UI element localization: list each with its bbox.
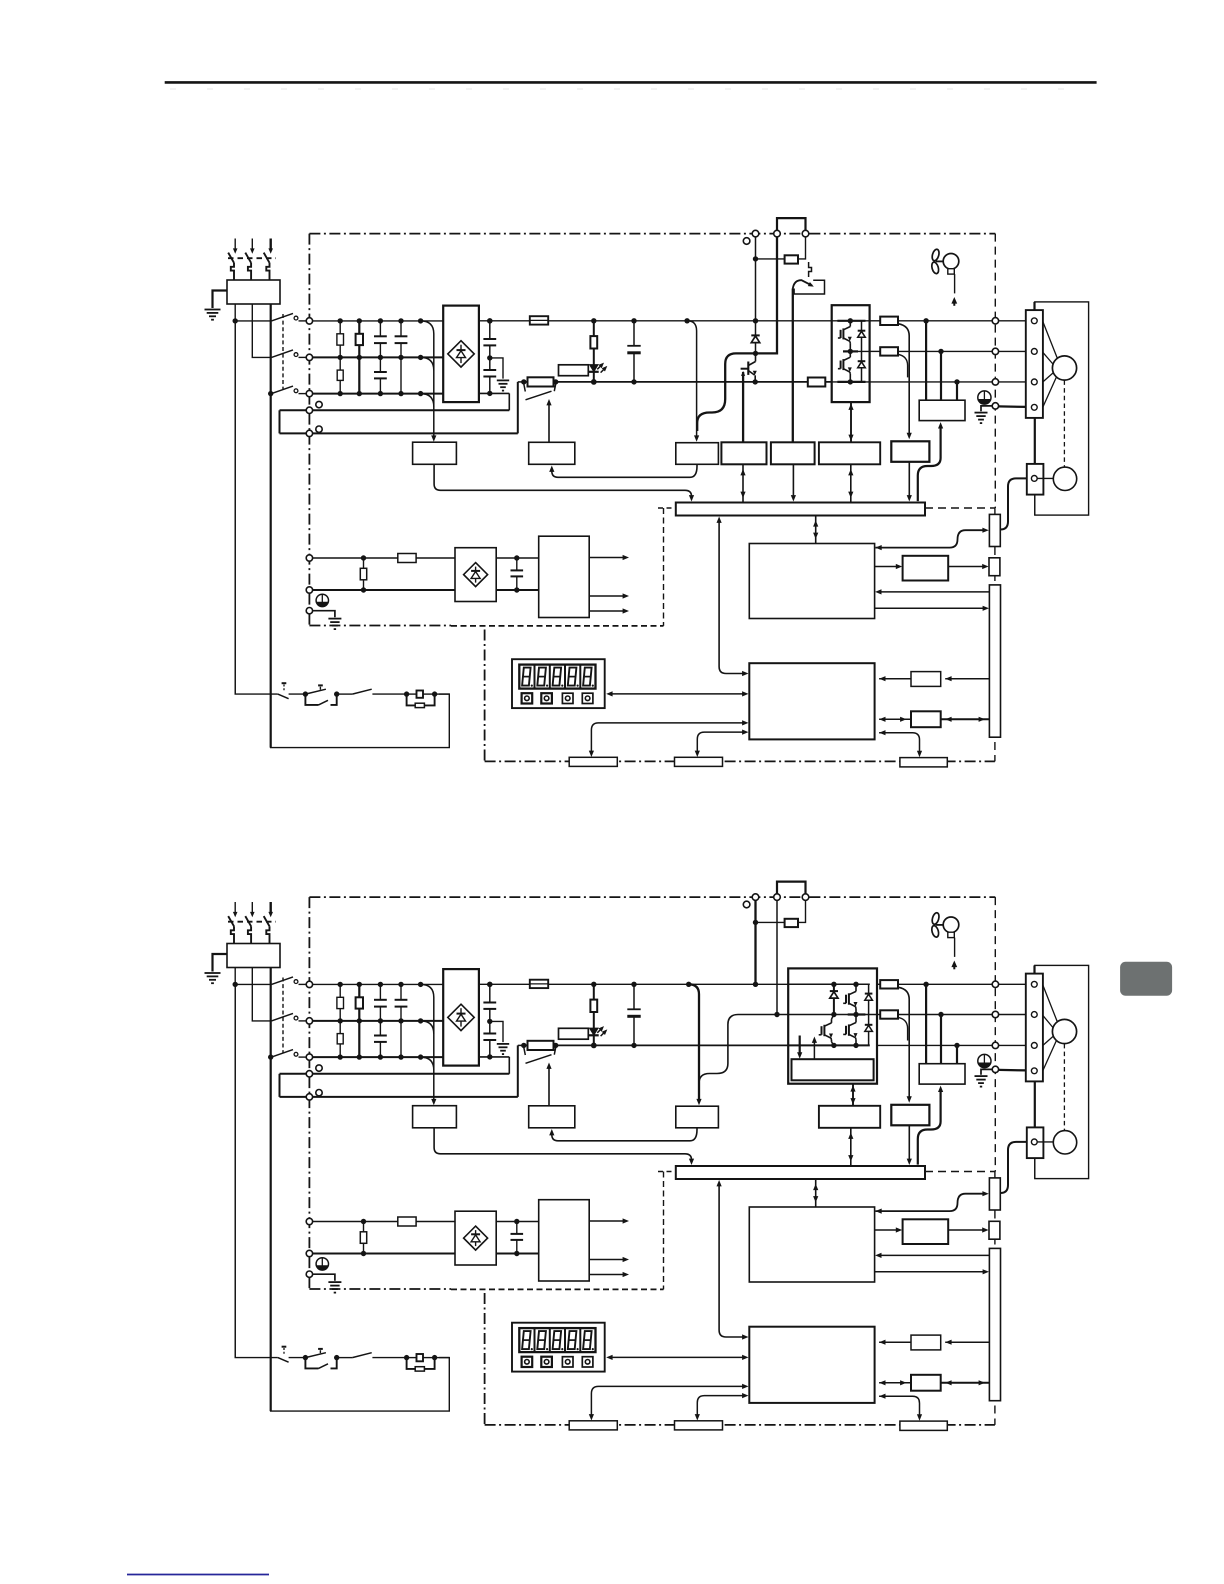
display-CPU link [609,693,745,695]
terminal U [992,981,998,987]
operator keys [522,693,533,703]
wire L1 to contactor [235,983,271,985]
control section dash-dot bottom border [309,1288,451,1290]
voltage sense taps to detector [418,318,423,323]
PE ground wire [981,1069,992,1074]
capacitor midpoint ground [490,358,503,379]
wire B1 to module midpoint [776,900,778,1014]
overheat input block [771,442,815,464]
noise filter ground lead [213,291,228,309]
display-CPU link [609,1356,745,1358]
motor-encoder link [1034,418,1036,464]
block B-CN1 link [941,1382,990,1384]
encoder connector [1027,464,1044,495]
regen diode [751,334,759,336]
IGBT power module [788,968,877,1083]
charge lamp LED [590,1028,598,1035]
wire V to terminal [898,1014,992,1016]
circuit breaker pole 1 [234,239,236,250]
current sense block [891,1105,929,1126]
CN1 to block A [945,678,989,680]
control power dashed bottom border [451,625,664,627]
wire detection to bus [434,1128,691,1161]
CN1 to ASIC [880,1254,990,1256]
relay surge suppressor [407,1358,416,1369]
IGBT lower [842,359,844,370]
CPU-CN3 link [591,723,744,753]
charge lamp label box [559,365,589,376]
capacitor midpoint ground [490,1021,503,1042]
cooling fan [931,248,940,261]
cooling fan [931,912,940,925]
connector CN8 [900,758,947,767]
block A to CPU [879,678,911,680]
resistor column 1 [339,984,341,1057]
terminal ground [306,608,312,614]
gate drive link [850,402,852,442]
block A to CPU [879,1341,911,1343]
control fuse [398,1217,416,1226]
analog buffer block [903,1219,949,1244]
control power dashed right border [663,508,665,626]
relay circuit supply wire [235,984,278,1357]
current detection box [919,1064,965,1084]
wire gate drive to bus [850,464,852,502]
capacitor column 4 [400,321,402,336]
circuit breaker pole 1 [234,902,236,913]
rectifier N output [479,392,509,394]
B2-B1 external jumper [777,882,806,894]
regen gate bar [741,368,749,370]
I/O connector CN1 [989,1248,1000,1400]
gate signal arrows [799,1036,801,1055]
interface block B [911,1375,941,1391]
buffer to CN5 [948,566,984,568]
terminal L2 [306,354,312,360]
servomotor outline [1035,302,1089,515]
self-holding contact [305,1358,318,1369]
motor [1052,356,1076,380]
wire voltage block to relay drive [552,1128,697,1141]
inrush bypass relay contact [524,1047,526,1055]
terminal B1 [774,230,781,237]
control filter capacitor [514,1219,519,1224]
current sense block [891,441,929,462]
circuit breaker pole 3 [270,239,272,250]
terminal B2 [802,230,809,237]
terminal L2C [306,1250,312,1256]
fuse (U phase) [880,317,898,325]
wire L1 to rectifier [313,320,444,322]
bus dashed stubs [658,1171,676,1173]
digital operator display [512,1323,605,1372]
stop pushbutton [282,1346,287,1348]
breaker mechanical link (dashed) [228,921,276,923]
node L3 tap [268,1054,273,1059]
fuse (V phase) [880,347,898,355]
main circuit dash-dot border top [309,233,995,235]
terminal L1C [306,1218,312,1224]
ground (noise filter) [205,309,221,311]
control inrush resistor [363,1222,365,1232]
control rectifier [455,548,496,602]
encoder cable [1000,1142,1027,1193]
connector CN5 [989,558,1000,576]
relay drive arrow [548,1067,550,1106]
wire current sense to bus [908,1125,910,1161]
connector CN8 [900,1421,947,1430]
circuit breaker pole 3 [270,902,272,913]
ASIC block [749,1207,874,1282]
main circuit dashed border right [994,897,996,1171]
main circuit dash-dot border top [309,896,995,898]
terminal L1C [306,555,312,561]
regen drive block [721,442,766,464]
wire overheat block to bus [792,464,794,497]
wire B1 to regen collector [757,237,777,354]
terminal DC reactor 1 [306,1071,312,1077]
chapter tab (gray) [1120,962,1172,996]
circuit breaker pole 2 [251,902,253,913]
fan supply arrow [951,961,957,968]
I/O connector CN1 [989,585,1000,737]
charge lamp resistor [591,318,596,323]
resistor column 2 [358,984,360,1057]
resistor column 1 [339,321,341,394]
terminal L3 [306,1054,312,1060]
terminal B3 [752,894,759,901]
ASIC block [749,544,874,619]
connector CN5 [989,1221,1000,1239]
N line current sensor [808,378,826,387]
control supply outputs [589,1220,625,1222]
encoder connector CN2 [989,514,1000,546]
ASIC-CN2 link [876,530,985,547]
relay circuit supply wire [235,321,278,694]
bus dashed stubs [658,507,676,509]
CPU-CN3 link [591,1386,744,1416]
block B-CN1 link [941,718,990,720]
gate drive block [819,1106,880,1128]
current sensor taps [925,984,927,1063]
interface block A [911,1335,941,1350]
relay coil [404,1355,409,1360]
diode bridge rectifier [443,969,479,1066]
upper IGBT [848,993,850,1004]
fuse sense wires [899,324,910,435]
control ground wire [313,611,335,618]
bus-CPU link [718,521,720,667]
internal bus bar [676,1166,925,1179]
interlock contact [337,693,353,695]
current detection feedback wire [938,422,943,428]
wire V to motor [999,1014,1027,1016]
capacitor column 3 [379,984,381,999]
relay drive arrow [548,403,550,442]
wire PE to motor [999,1069,1027,1072]
wire L2 from filter [252,304,271,357]
inrush resistor [518,1044,528,1046]
ASIC-CN2 link [876,1194,985,1211]
wire U to terminal [898,983,992,985]
CPU-CN8 link [879,1396,919,1416]
internal regen resistor [785,919,798,927]
wire U to motor [999,320,1027,322]
contactor contact 2 [272,1013,294,1021]
wire L1 from filter [234,968,236,1358]
encoder connector to motor frame [1034,495,1036,515]
control inrush resistor [363,558,365,568]
wire L3 to rectifier [313,393,444,395]
main smoothing capacitor [631,318,636,323]
CPU block [749,663,874,739]
operator keys [522,1357,533,1367]
node L3 tap [268,391,273,396]
terminal PE [992,403,998,409]
voltage detection block [676,443,719,465]
relay coil [404,691,409,696]
faint ruling under header [170,88,1095,90]
CPU block [749,1327,874,1403]
regen resistor thermostat [809,262,812,277]
encoder cable [1000,478,1027,529]
capacitor column 4 [400,984,402,999]
terminal DC reactor 2 [306,430,312,436]
wire L2C [313,1253,455,1255]
display section dash-dot border [484,630,486,762]
node L1 tap [233,318,238,323]
terminal B2 [802,894,809,901]
inrush bypass relay contact [524,384,526,392]
display section dash-dot border [484,1293,486,1425]
PE symbol (control) [316,594,328,606]
wire L1C [313,1221,455,1223]
terminal W [992,1042,998,1048]
main circuit dash-dot border left [308,234,310,626]
control power supply unit [539,536,590,617]
wire L2 to rectifier [313,356,444,358]
PE symbol [978,1054,991,1067]
fan supply arrow [951,297,957,304]
noise filter box [227,944,280,968]
CPU-CN7 link [697,732,744,753]
terminal DC reactor 1 [306,407,312,413]
N rail [554,1044,789,1046]
wire L2 to rectifier [313,1020,444,1022]
connector CN7 [675,1421,723,1430]
footnote rule (blue) [127,1574,269,1576]
wire voltage block to relay drive [552,464,697,477]
contactor contact 3 [272,1050,294,1058]
freewheel diode upper [861,321,863,331]
encoder shaft (dashed) [1063,380,1065,467]
module mid bar [788,1014,877,1016]
wire L1 to rectifier [313,983,444,985]
fuse (U phase) [880,980,898,988]
buffer to CN5 [948,1229,984,1231]
bus-CPU link [718,1185,720,1331]
wire L2C [313,589,455,591]
motor winding leads [1043,322,1058,360]
ASIC to buffer [875,566,898,568]
terminal B3 [752,230,759,237]
control power dashed right border [663,1172,665,1290]
terminal L1 [306,981,312,987]
PE ground wire [981,406,992,411]
DC reactor loop wires [280,409,510,411]
terminal ground [306,1271,312,1277]
contactor contact 1 [272,977,294,985]
terminal L3 [306,390,312,396]
module output V [870,350,881,352]
wire B3 to P rail [754,900,756,984]
contactor link (dashed) [282,314,284,389]
regen IGBT (module) [823,1025,825,1036]
PE symbol (control) [316,1258,328,1270]
charge lamp resistor [591,982,596,987]
ASIC to CN1 [875,607,985,609]
B2-B1 external jumper [777,218,806,230]
internal bus bar [676,503,925,516]
module N bar [788,1044,870,1046]
wire gate drive to bus [850,1128,852,1166]
PE symbol [978,391,991,404]
module output W [870,381,898,383]
interlock contact [337,1357,353,1359]
CPU-CN8 link [879,733,919,753]
rectifier N output [479,1056,509,1058]
start pushbutton [303,1355,308,1360]
midpoint sense wire [699,1015,777,1084]
relay circuit return wire [271,1057,450,1411]
thermostat sense wire [792,289,794,443]
control section dash-dot bottom border [309,625,451,627]
node L1 tap [233,982,238,987]
ASIC to buffer [875,1229,898,1231]
charge lamp LED [590,365,598,372]
module P bar [788,983,870,985]
internal regen resistor [785,255,798,263]
encoder [1053,1131,1076,1154]
self-holding contact [305,694,318,705]
module output U [870,320,881,322]
encoder connector to motor frame [1034,1158,1036,1179]
motor-encoder link [1034,1081,1036,1127]
current detection box [919,400,965,420]
lower freewheel diode [868,1015,870,1025]
IGBT upper [842,328,844,339]
page header rule [165,81,1097,84]
relay drive block [529,1106,575,1128]
bus-ASIC link [815,1179,817,1207]
control ground wire [313,1274,335,1281]
wire W to terminal [898,381,992,383]
resistor column 2 [358,321,360,394]
module N bar [832,381,870,383]
inrush resistor [518,381,528,383]
main circuit dashed border right [994,234,996,508]
control power dashed bottom border [451,1288,664,1290]
wire U to motor [999,983,1027,985]
wire V to terminal [898,350,992,352]
control supply outputs [589,557,625,559]
control filter capacitor [514,555,519,560]
connector CN3 [569,1421,617,1430]
connector CN7 [675,757,723,766]
regen transistor [755,353,757,361]
module output V [877,1014,880,1016]
control fuse [398,554,416,563]
motor power connector [1026,974,1043,1082]
smoothing capacitor chain [489,984,491,1002]
wire V to motor [999,350,1027,352]
wire L3 from filter [270,968,272,1058]
capacitor column 3 [379,321,381,336]
ground (noise filter) [205,972,221,974]
interface block A [911,672,941,687]
terminal U [992,318,998,324]
contactor contact 1 [272,313,294,321]
upper freewheel diode [868,984,870,993]
encoder connector CN2 [989,1178,1000,1210]
contactor contact 2 [272,350,294,358]
relay circuit return wire [271,394,450,748]
fuse (P rail) [530,980,548,988]
encoder [1053,467,1076,490]
P rail [479,320,530,322]
control power supply unit [539,1200,590,1281]
wire L3 from filter [270,304,272,394]
P rail sense tap [684,318,689,323]
terminal DC reactor 2 [306,1094,312,1100]
module output U [877,983,880,985]
terminal V [992,348,998,354]
wire current sense to bus [908,462,910,498]
fuse sense wires [899,987,910,1098]
voltage sense taps to detector [418,982,423,987]
noise filter ground lead [213,954,228,972]
stop pushbutton [282,682,287,684]
encoder connector [1027,1127,1044,1158]
smoothing capacitor chain [489,321,491,339]
terminal V [992,1011,998,1017]
contactor contact 3 [272,386,294,394]
noise filter box [227,280,280,304]
encoder shaft (dashed) [1063,1044,1065,1131]
CPU-CN7 link [697,1396,744,1417]
P rail sense tap [686,982,691,987]
motor power connector [1026,310,1043,418]
freewheel diode lower [861,351,863,361]
fuse (P rail) [530,316,548,324]
control rectifier [455,1211,496,1265]
regen diode (module) [833,984,835,991]
terminal L1 [306,318,312,324]
CPU-block B link [879,1382,911,1384]
ASIC to CN1 [875,1271,985,1273]
fuse (V phase) [880,1010,898,1018]
main circuit dash-dot border left [308,897,310,1289]
breaker mechanical link (dashed) [228,257,276,259]
IGBT power module [832,305,870,402]
CN1 to block A [945,1341,989,1343]
circuit breaker pole 2 [251,239,253,250]
module midpoint [843,350,870,352]
wire detection to bus [434,464,691,497]
servomotor outline [1035,965,1089,1178]
CPU-block B link [879,718,911,720]
wire L1 to contactor [235,320,271,322]
